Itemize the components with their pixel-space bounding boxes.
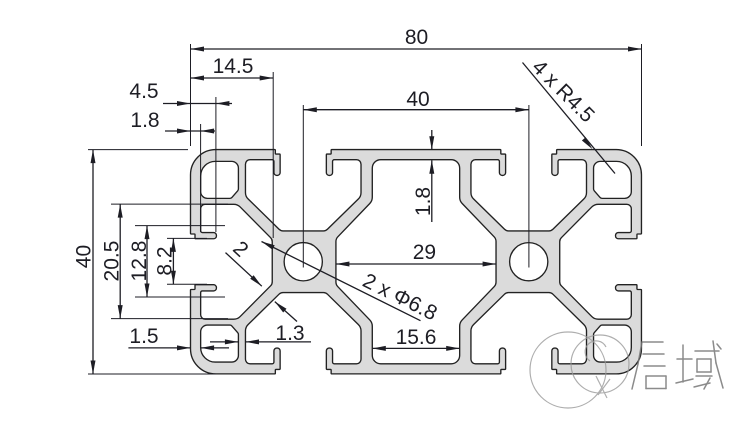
svg-text:15.6: 15.6 xyxy=(396,326,437,349)
svg-text:40: 40 xyxy=(406,88,429,111)
svg-text:8.2: 8.2 xyxy=(154,246,177,275)
svg-text:1.8: 1.8 xyxy=(130,109,159,132)
svg-text:4.5: 4.5 xyxy=(129,80,158,103)
svg-text:20.5: 20.5 xyxy=(101,241,124,282)
svg-text:1.8: 1.8 xyxy=(412,187,435,216)
svg-text:1.3: 1.3 xyxy=(275,322,304,345)
svg-text:40: 40 xyxy=(73,245,96,268)
svg-text:12.8: 12.8 xyxy=(128,241,151,282)
svg-text:1.5: 1.5 xyxy=(129,325,158,348)
svg-text:80: 80 xyxy=(405,26,428,49)
svg-text:14.5: 14.5 xyxy=(213,55,254,78)
svg-text:29: 29 xyxy=(413,241,436,264)
